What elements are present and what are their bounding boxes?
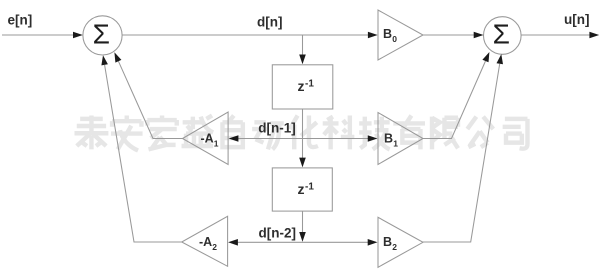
- char si: [503, 119, 528, 149]
- svg-text:d[n-1]: d[n-1]: [258, 121, 296, 136]
- arrow into gain B1: [368, 135, 378, 142]
- wire d[n-1] row: [238, 138, 369, 140]
- svg-text:d[n]: d[n]: [257, 15, 282, 30]
- char gong: [467, 117, 493, 148]
- gain -A1 triangle: [183, 112, 229, 165]
- svg-text:Σ: Σ: [493, 19, 510, 50]
- svg-text:u[n]: u[n]: [564, 12, 589, 27]
- gain B2 triangle: [378, 217, 423, 267]
- svg-text:0: 0: [392, 34, 397, 44]
- arrow into gain B2: [368, 239, 378, 246]
- char hong: [147, 116, 176, 150]
- arrow into gain -A1: [229, 135, 239, 142]
- wire summer1 to B0: [122, 34, 369, 36]
- char zi: [222, 116, 242, 150]
- svg-text:d[n-2]: d[n-2]: [259, 225, 297, 240]
- wire B2 out to summer2: [422, 64, 500, 242]
- arrow A2 feedback into summer U1: [101, 55, 108, 65]
- arrow onto d[n-2] row: [299, 232, 306, 242]
- svg-text:1: 1: [214, 139, 219, 149]
- arrow B1 into summer U2: [482, 52, 489, 62]
- char hua: [290, 116, 318, 150]
- watermark company name: [75, 116, 528, 151]
- char dong: [252, 122, 284, 149]
- svg-text:z: z: [298, 181, 305, 197]
- svg-text:-A: -A: [199, 235, 212, 249]
- arrow output: [589, 32, 599, 39]
- wire d[n-2] row: [237, 241, 369, 243]
- svg-text:B: B: [383, 235, 392, 249]
- wire A1 apex stub: [118, 61, 182, 138]
- svg-text:z: z: [298, 78, 305, 94]
- char you: [393, 116, 425, 150]
- gain -A2 triangle: [182, 216, 228, 266]
- arrowheads: [73, 32, 599, 246]
- wire A2 apex stub: [105, 65, 182, 242]
- gain B1 triangle: [378, 113, 423, 165]
- svg-text:2: 2: [392, 242, 397, 252]
- wire delay1 to delay2 through d[n-1] node: [302, 109, 304, 159]
- svg-text:-A: -A: [201, 132, 214, 146]
- arrow into summer U2: [474, 32, 484, 39]
- svg-text:1: 1: [393, 139, 398, 149]
- arrow into delay box 2: [299, 158, 306, 168]
- char ke: [323, 116, 355, 150]
- wire delay2 down to d[n-2] node: [302, 211, 304, 233]
- wire d[n] node down to delay1: [302, 35, 304, 56]
- wire input e[n]: [2, 34, 74, 36]
- svg-text:-1: -1: [305, 182, 314, 193]
- summer U2 circle: [484, 17, 522, 55]
- svg-text:2: 2: [212, 242, 217, 252]
- char ji: [359, 117, 390, 150]
- arrow B2 into summer U2: [497, 54, 504, 64]
- summer U1 circle: [83, 16, 122, 55]
- char xian: [432, 117, 458, 150]
- wire B0 to summer2: [423, 34, 475, 36]
- arrow into delay box 1: [299, 55, 306, 65]
- wire output u[n]: [521, 34, 590, 36]
- arrow into summer U1: [73, 32, 83, 39]
- svg-text:Σ: Σ: [93, 19, 110, 50]
- svg-text:-1: -1: [305, 79, 314, 90]
- arrow into gain -A2: [228, 239, 238, 246]
- arrow A1 feedback into summer U1: [114, 52, 121, 62]
- svg-text:B: B: [384, 132, 393, 146]
- char sheng: [182, 116, 214, 147]
- gain B0 triangle: [378, 10, 423, 60]
- delay z-1 box 1: [272, 65, 333, 109]
- delay z-1 box 2: [272, 168, 332, 211]
- char an: [111, 116, 143, 151]
- svg-text:e[n]: e[n]: [8, 13, 33, 28]
- wire B1 out to summer2: [423, 61, 486, 139]
- char tai: [75, 116, 109, 150]
- svg-text:B: B: [383, 27, 392, 41]
- arrow into gain B0: [368, 32, 378, 39]
